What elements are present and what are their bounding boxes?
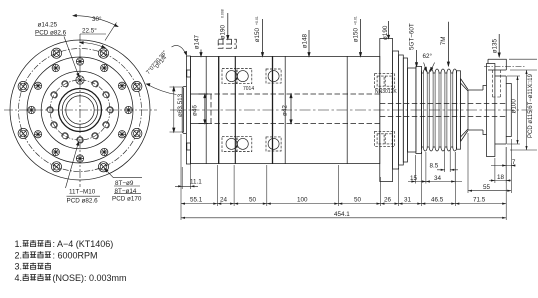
svg-text:50: 50 xyxy=(249,197,257,204)
label 8T-ø14 underline xyxy=(114,192,141,194)
svg-text:+0.01: +0.01 xyxy=(255,16,259,25)
nose block + main housing body xyxy=(190,56,379,163)
note4 cjk 主軸偏擺 xyxy=(23,274,29,281)
8 counterbore bolts on PCD170 xyxy=(132,81,142,91)
ext lines bottom main row xyxy=(181,134,506,220)
front bearing spacer joint xyxy=(234,56,236,163)
30 deg arc xyxy=(73,16,118,27)
svg-text:34: 34 xyxy=(434,175,442,182)
pulley ribbed band bottom xyxy=(421,147,456,151)
svg-text:454.1: 454.1 xyxy=(334,211,350,218)
shaft cylinder xyxy=(468,90,483,130)
11.1 dim xyxy=(182,152,190,189)
svg-text:ø148: ø148 xyxy=(302,33,309,48)
hidden taper lines in nose xyxy=(191,39,507,123)
leader 5GT-60T xyxy=(416,50,418,67)
svg-text:18: 18 xyxy=(497,174,505,181)
rear bearing NN3012K bottom xyxy=(375,131,395,146)
body internal line 2 xyxy=(284,56,286,163)
15/34 dims xyxy=(415,152,455,184)
leader ø135 xyxy=(498,34,500,57)
67.5deg bolt axis extension line xyxy=(105,23,117,41)
62 deg groove arrows xyxy=(424,63,435,72)
front bearing pair 7014 top xyxy=(222,69,252,84)
arrows main row xyxy=(178,164,515,219)
svg-text:7014: 7014 xyxy=(243,86,254,92)
hidden bore lines body xyxy=(191,94,380,124)
main axis centerline xyxy=(170,109,534,111)
arrows 7 xyxy=(502,164,515,166)
arrows 18 xyxy=(491,179,510,181)
svg-text:ø135: ø135 xyxy=(491,38,498,53)
label 8T-ø9 underline xyxy=(114,185,140,187)
PCD115 ext lines xyxy=(509,59,537,150)
svg-text:55: 55 xyxy=(483,184,491,191)
ø42 dimension inside body xyxy=(290,94,292,124)
svg-text:ø190: ø190 xyxy=(220,24,227,39)
flange outer circle xyxy=(10,40,150,180)
taper bore circle xyxy=(62,92,98,128)
hidden bore lines rear xyxy=(380,103,507,116)
hidden key pocket on body top xyxy=(218,39,236,48)
PCD 170 bolt circle (dash-dot) xyxy=(19,49,142,172)
nose block inner vertical xyxy=(205,56,207,163)
svg-text:11.1: 11.1 xyxy=(190,179,202,186)
arrows 55 xyxy=(468,190,511,192)
dim line main row xyxy=(181,203,506,205)
body internal line 3 xyxy=(346,56,348,163)
taper angle leader arc lower xyxy=(147,84,177,95)
leader 11T-M10 xyxy=(66,142,79,188)
svg-text:2.: 2. xyxy=(15,250,23,260)
svg-text:D=1/4: D=1/4 xyxy=(154,55,168,70)
svg-text:11T−M10: 11T−M10 xyxy=(69,188,96,195)
svg-text:ø190: ø190 xyxy=(382,25,389,40)
svg-text:46.5: 46.5 xyxy=(431,197,444,204)
svg-text:24: 24 xyxy=(220,197,228,204)
front bearing pair 7014 bottom xyxy=(222,136,252,151)
belt flange disc xyxy=(416,67,422,154)
mid bearing top xyxy=(266,69,281,83)
ø100 ext lines xyxy=(507,76,520,144)
flange step circle xyxy=(27,57,133,163)
svg-text:50: 50 xyxy=(354,197,362,204)
pulley spacer xyxy=(408,68,416,152)
cap/body joint (thick) xyxy=(218,56,220,163)
svg-text:8.5: 8.5 xyxy=(430,162,439,169)
flange inner step circle xyxy=(41,71,119,149)
spindle snout xyxy=(182,87,186,134)
arrows 8.5 xyxy=(441,169,455,171)
svg-text:PCD ø115 6T−ø11X□19: PCD ø115 6T−ø11X□19 xyxy=(528,73,534,138)
svg-text:31: 31 xyxy=(404,197,412,204)
front view vertical centerline xyxy=(79,34,81,187)
svg-text:ø150: ø150 xyxy=(353,27,360,42)
leader ø14.25 label xyxy=(64,37,79,77)
pulley side walls xyxy=(421,71,456,150)
11 M10 tapped holes on PCD82.6 xyxy=(107,107,114,114)
end cylinder xyxy=(495,76,506,144)
front view horizontal centerline xyxy=(4,109,157,111)
svg-text:55.1: 55.1 xyxy=(190,197,203,204)
22.5 deg reference shelf xyxy=(80,33,106,35)
svg-text:100: 100 xyxy=(297,197,308,204)
svg-text:3.: 3. xyxy=(15,262,23,272)
flange bolt bottom xyxy=(187,143,191,150)
svg-text:PCD ø82.6: PCD ø82.6 xyxy=(67,198,99,205)
svg-text:4.: 4. xyxy=(15,273,23,283)
svg-text:: A−4 (KT1406): : A−4 (KT1406) xyxy=(53,239,114,249)
taper bore small circle xyxy=(66,96,94,124)
shaft cone xyxy=(461,79,469,142)
arrows 15/34 xyxy=(411,180,455,182)
ø100 dim line xyxy=(517,76,519,144)
svg-text:PCD ø170: PCD ø170 xyxy=(112,195,142,202)
note1 cjk 主軸規格 xyxy=(23,241,29,247)
front flange plate xyxy=(186,56,190,164)
svg-text:ø42: ø42 xyxy=(282,105,289,116)
svg-text:7: 7 xyxy=(512,159,516,166)
PCD115 dim line xyxy=(526,70,528,150)
end flange bolt boss xyxy=(488,59,506,70)
svg-text:(NOSE): 0.003mm: (NOSE): 0.003mm xyxy=(53,273,127,283)
end cap xyxy=(506,84,511,137)
hidden bore step vertical xyxy=(210,94,212,124)
label 11T-M10 underline xyxy=(67,195,101,197)
taper angle leader arc upper xyxy=(172,45,187,55)
svg-text:8T−ø14: 8T−ø14 xyxy=(115,188,137,195)
svg-text:ø14.25: ø14.25 xyxy=(38,21,58,28)
leader 7M xyxy=(447,22,449,66)
leader ø148 xyxy=(308,30,310,56)
spindle nose boss circle (thick) xyxy=(59,89,102,132)
svg-text:ø100: ø100 xyxy=(511,99,518,114)
svg-text:15: 15 xyxy=(410,175,418,182)
leader ø147 xyxy=(200,50,202,57)
pilot hole ø14.25 at top of PCD82.6 xyxy=(76,76,84,84)
rear plate 1 (ø190) xyxy=(380,39,393,182)
svg-text:8T−ø9: 8T−ø9 xyxy=(115,180,134,187)
svg-text:7M: 7M xyxy=(440,37,447,46)
pulley groove wall lines xyxy=(423,73,453,147)
svg-text:0.008: 0.008 xyxy=(221,9,225,18)
shaft step xyxy=(483,86,487,135)
arrows total xyxy=(181,217,506,219)
svg-text:PCD ø82.6: PCD ø82.6 xyxy=(35,30,67,37)
rear bearing NN3012K top xyxy=(375,74,395,89)
ø46 dimension bracket in nose xyxy=(196,94,208,124)
leader ø190 h6 xyxy=(227,13,229,39)
svg-text:ø63.513: ø63.513 xyxy=(177,93,184,117)
rear plate 2 xyxy=(393,51,399,169)
flange bolt top xyxy=(187,70,191,77)
12 hatched holes mid ring xyxy=(125,106,132,113)
7 dim xyxy=(506,147,511,168)
end flange xyxy=(487,64,495,157)
svg-text:30°: 30° xyxy=(92,15,102,23)
svg-text:5GT−60T: 5GT−60T xyxy=(408,23,415,50)
svg-text:62°: 62° xyxy=(423,52,433,60)
dim line total xyxy=(181,217,506,219)
pulley ribbed band top xyxy=(421,69,456,73)
8.5 dim xyxy=(445,150,451,172)
ø63.513 dimension lines xyxy=(170,87,185,132)
leader 8T holes xyxy=(105,169,142,178)
rear spacer 1 xyxy=(399,55,404,165)
arrows 11.1 xyxy=(178,185,194,187)
svg-text:ø147: ø147 xyxy=(194,34,201,49)
boss bolt axis dash-dot xyxy=(484,65,525,67)
right side vertical dimensions xyxy=(507,59,537,150)
body internal joint (thick) xyxy=(272,56,274,163)
svg-text:ø46: ø46 xyxy=(192,105,199,116)
PCD 82.6 circle (dash-dot) xyxy=(50,80,110,140)
svg-text:+0.01: +0.01 xyxy=(354,16,358,25)
note2 cjk 主軸運轉 xyxy=(23,251,29,258)
svg-text:22.5°: 22.5° xyxy=(82,27,97,35)
svg-text:26: 26 xyxy=(384,197,392,204)
svg-text:71.5: 71.5 xyxy=(473,197,486,204)
label ø14.25 / PCD 82.6 underline xyxy=(35,35,66,37)
note3 cjk 油脂潤滑 xyxy=(23,263,29,269)
svg-text:ø150: ø150 xyxy=(254,27,261,42)
55 dim xyxy=(468,133,511,193)
rear spacer 2 xyxy=(403,58,407,162)
18 dim xyxy=(495,147,506,183)
leader ø150 front xyxy=(262,19,264,56)
svg-text:1.: 1. xyxy=(15,239,23,249)
svg-text:NN3012K: NN3012K xyxy=(375,89,397,95)
leader ø190 rear xyxy=(388,21,390,39)
svg-text:: 6000RPM: : 6000RPM xyxy=(53,250,98,260)
leader ø150 rear xyxy=(360,19,362,56)
end flange bolt hole hidden lines xyxy=(493,70,501,97)
pulley end disc xyxy=(456,71,460,149)
22.5 deg arc xyxy=(80,43,105,48)
mid bearing bottom xyxy=(266,137,281,151)
ext line left total xyxy=(180,206,182,220)
